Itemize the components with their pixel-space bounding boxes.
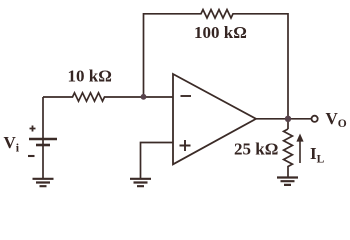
- svg-text:25 kΩ: 25 kΩ: [234, 140, 278, 159]
- svg-text:100 kΩ: 100 kΩ: [194, 23, 247, 42]
- svg-text:10 kΩ: 10 kΩ: [68, 67, 112, 86]
- svg-text:Vi: Vi: [4, 133, 20, 155]
- svg-text:IL: IL: [310, 144, 325, 166]
- svg-text:VO: VO: [326, 109, 347, 130]
